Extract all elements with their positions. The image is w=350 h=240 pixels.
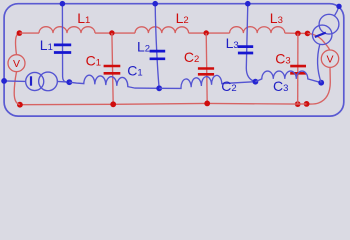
bottom wire (red return rail) — [20, 103, 307, 104]
node 1 (dual mesh node) — [66, 79, 72, 85]
node 3 (dual mesh node) — [253, 79, 259, 85]
inductor L2 — [135, 27, 189, 33]
node 4 (dual mesh node) — [318, 80, 324, 86]
wire V1 top to node A — [16, 33, 20, 55]
capacitor C2 stem — [206, 33, 207, 103]
current source I1 (dual of V1) — [26, 72, 58, 91]
node 2 (dual mesh node) — [156, 85, 162, 91]
capacitor L3' stem — [246, 4, 255, 82]
wire L1 to L2 — [95, 32, 135, 34]
junction on outer node (left) — [1, 78, 7, 84]
wire I2 to node 4 — [318, 44, 322, 82]
node F — [304, 101, 310, 107]
junction on outer node (top, x=155) — [152, 1, 158, 7]
inductor L3 — [230, 27, 285, 33]
wire I1 to node 1 — [57, 80, 69, 83]
inductor C3' (dual of C3) — [255, 71, 321, 83]
capacitor L1' — [54, 45, 71, 53]
capacitor C2 — [198, 69, 214, 75]
node G — [295, 101, 301, 107]
inductor C1' (dual of C1) — [69, 75, 159, 88]
junction on outer node (top, x=62) — [60, 1, 66, 7]
capacitor L3' — [238, 47, 253, 53]
capacitor L2' stem — [155, 4, 159, 89]
node J (C2 bottom) — [204, 101, 210, 107]
inductor C2' (dual of C2) — [159, 75, 255, 88]
wire node H to V1 bottom — [14, 72, 20, 105]
wire outer node corner to current source I2 — [334, 6, 339, 16]
capacitor C3 — [290, 66, 306, 73]
node D — [295, 31, 301, 37]
node E — [305, 31, 311, 37]
capacitor C1 stem — [112, 33, 113, 104]
node B — [109, 30, 114, 35]
node A — [17, 30, 23, 36]
wire outer node to current source I1 — [4, 80, 26, 83]
wire node E to V2 top — [308, 33, 330, 50]
wire L3 to node E — [285, 32, 308, 34]
junction on outer node (top-right corner) — [336, 4, 341, 9]
outer node loop of dual network (rounded border) — [4, 4, 344, 116]
wire V2 bottom to node F — [307, 67, 331, 104]
capacitor L1' stem — [62, 4, 69, 83]
capacitor L2' — [150, 51, 166, 59]
inductor L1 — [39, 27, 95, 33]
current source I2 (dual of V2) — [312, 14, 338, 44]
capacitor C1 — [104, 66, 121, 73]
node H — [17, 102, 23, 108]
wire node A to L1 — [19, 32, 39, 34]
voltage source V2 — [321, 50, 338, 67]
svg-text:V: V — [13, 58, 20, 70]
svg-text:V: V — [326, 54, 333, 66]
capacitor C3 stem — [297, 33, 299, 104]
node C — [204, 30, 209, 35]
node I (C1 bottom) — [110, 101, 116, 107]
wire L2 to L3 — [189, 32, 230, 34]
voltage source V1 — [8, 55, 25, 72]
junction on outer node (top, x=248) — [245, 1, 251, 7]
